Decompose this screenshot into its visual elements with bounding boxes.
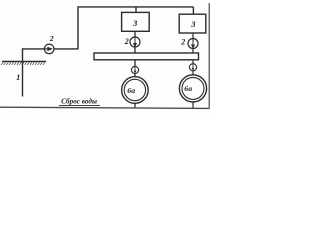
svg-text:1: 1	[16, 73, 20, 82]
svg-text:2: 2	[180, 37, 185, 46]
svg-text:Сброс воды: Сброс воды	[61, 98, 97, 106]
svg-text:2: 2	[124, 37, 129, 46]
svg-text:6а: 6а	[184, 84, 192, 93]
svg-text:2: 2	[49, 34, 54, 43]
svg-text:3: 3	[132, 18, 138, 28]
svg-text:3: 3	[190, 19, 196, 29]
svg-text:6а: 6а	[127, 86, 135, 95]
